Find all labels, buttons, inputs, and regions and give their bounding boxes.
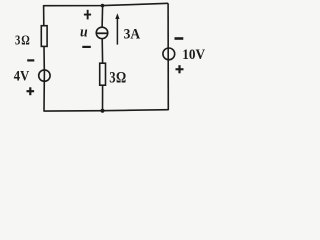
svg-text:4V: 4V bbox=[14, 68, 29, 84]
wire left branch lower (through source) bbox=[43, 70, 45, 111]
wire left branch upper bbox=[43, 5, 45, 26]
wire middle branch lower bbox=[102, 85, 104, 111]
minus sign below u bbox=[82, 46, 91, 48]
svg-text:3A: 3A bbox=[124, 26, 141, 43]
label 10V bbox=[182, 46, 206, 63]
minus sign above 4V bbox=[27, 59, 34, 61]
current source 3A circle bbox=[96, 27, 108, 39]
label 3 ohm middle bbox=[109, 69, 127, 86]
label 3A bbox=[124, 26, 141, 43]
plus sign top middle bbox=[84, 14, 91, 16]
svg-text:3Ω: 3Ω bbox=[109, 69, 127, 86]
wire right branch bbox=[167, 3, 169, 110]
svg-text:3Ω: 3Ω bbox=[15, 32, 31, 48]
label 4V bbox=[14, 68, 29, 84]
resistor R1 3ohm left bbox=[41, 26, 47, 47]
voltage source 10V circle bbox=[163, 48, 175, 60]
current arrow 3A head bbox=[115, 13, 119, 19]
node junction bottom bbox=[101, 109, 105, 113]
plus sign below 4V bbox=[27, 90, 35, 92]
wire middle branch middle bbox=[101, 38, 103, 63]
wire top edge bbox=[44, 3, 169, 5]
current arrow 3A line bbox=[116, 17, 118, 45]
wire middle branch upper bbox=[101, 6, 104, 28]
voltage source 4V circle bbox=[39, 70, 50, 81]
node junction top bbox=[101, 4, 105, 8]
resistor R2 3ohm middle bbox=[100, 63, 106, 85]
current source bar bbox=[96, 32, 108, 34]
svg-text:10V: 10V bbox=[182, 46, 206, 63]
wire bottom edge bbox=[44, 110, 169, 111]
minus sign right branch bbox=[175, 37, 184, 40]
label 3 ohm left bbox=[15, 32, 31, 48]
plus sign right branch bbox=[176, 68, 184, 70]
wire left branch middle bbox=[43, 46, 45, 71]
svg-text:u: u bbox=[80, 24, 88, 41]
label u voltage bbox=[80, 24, 88, 41]
